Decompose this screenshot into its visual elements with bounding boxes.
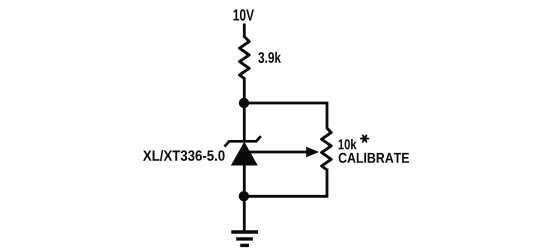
- label CALIBRATE: [339, 153, 409, 163]
- value label 3.9k: [258, 52, 281, 63]
- junction dot bottom node: [239, 191, 249, 201]
- resistor R1 3.9k zigzag: [240, 37, 250, 79]
- wire zener anode to bottom node: [243, 164, 246, 196]
- potentiometer R2 zigzag: [322, 128, 332, 170]
- value label 10k: [339, 139, 357, 150]
- zener diode D1 XL/XT336-5.0 cathode bar: [225, 136, 261, 147]
- net label 10V: [234, 9, 255, 20]
- wiper arrow from zener to potentiometer: [246, 147, 319, 158]
- wire potentiometer bottom to bottom node: [244, 169, 327, 197]
- ground symbol: [231, 232, 258, 245]
- wire from 10V to resistor R1: [243, 24, 246, 38]
- wire from R1 to top node: [243, 78, 246, 104]
- part label XL/XT336-5.0: [143, 150, 225, 161]
- wire top node down to zener cathode: [243, 103, 246, 142]
- wire bottom node to ground: [243, 196, 246, 232]
- zener diode D1 anode triangle: [232, 143, 257, 165]
- footnote asterisk: [361, 135, 368, 141]
- junction dot top node: [239, 98, 249, 108]
- wire top node to potentiometer top: [244, 103, 327, 129]
